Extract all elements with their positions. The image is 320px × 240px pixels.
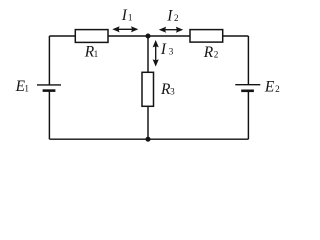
- svg-text:R2: R2: [203, 44, 219, 61]
- svg-text:I1: I1: [121, 7, 133, 24]
- svg-text:R1: R1: [84, 43, 99, 60]
- svg-text:E2: E2: [264, 78, 280, 95]
- svg-text:R3: R3: [160, 81, 175, 98]
- svg-text:E1: E1: [15, 78, 30, 95]
- svg-text:I3: I3: [160, 41, 174, 58]
- svg-text:I2: I2: [166, 8, 179, 25]
